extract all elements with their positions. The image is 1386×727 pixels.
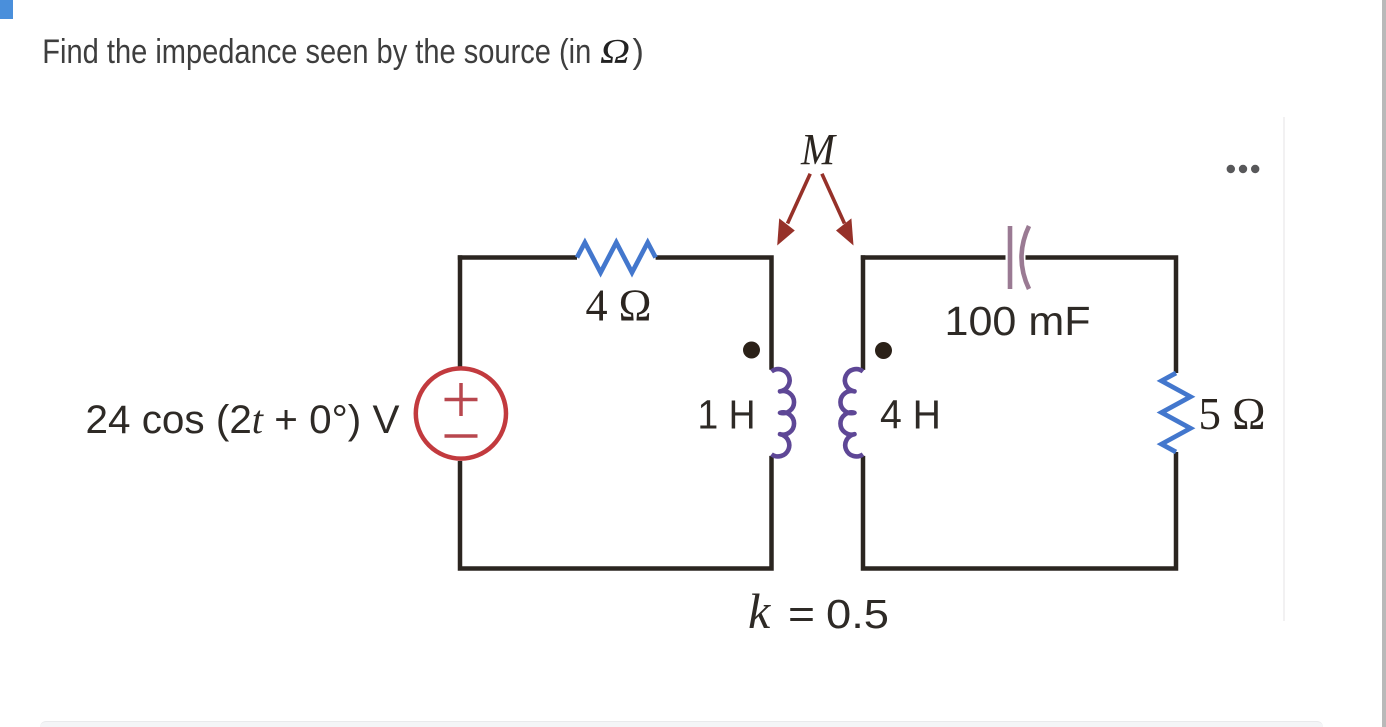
menu dot 3 — [1251, 165, 1259, 173]
menu dot 2 — [1239, 165, 1247, 173]
svg-text:5 Ω: 5 Ω — [1199, 388, 1266, 439]
svg-text:=: = — [788, 591, 815, 637]
figure right faint edge — [1283, 117, 1285, 621]
svg-text:1 H: 1 H — [698, 392, 756, 438]
arrow M left head — [777, 218, 795, 245]
right scrollbar line — [1382, 0, 1386, 727]
wire: left loop top right of resistor — [656, 258, 772, 370]
bottom gray band — [40, 721, 1323, 727]
capacitor C1 left plate — [1008, 226, 1013, 289]
capacitor C1 right curved plate — [1022, 226, 1030, 289]
dot marker right coil — [875, 342, 892, 359]
svg-text:M: M — [800, 125, 837, 174]
arrow M left shaft — [788, 174, 811, 224]
V1 minus sign — [445, 434, 478, 438]
blue corner square — [0, 0, 13, 19]
voltage source V1 circle — [416, 368, 506, 458]
wire: right loop top right segment and right side upper — [1026, 258, 1177, 374]
resistor R2 5ohm zigzag — [1162, 373, 1191, 452]
svg-text:0.5: 0.5 — [826, 591, 889, 637]
svg-text:4 Ω: 4 Ω — [586, 280, 652, 331]
svg-text:k: k — [748, 583, 771, 639]
wire: right loop left lower, bottom, right lower — [863, 452, 1176, 569]
inductor L2 4H coil — [840, 369, 863, 456]
svg-text:Find the impedance seen by the: Find the impedance seen by the source (i… — [42, 33, 591, 71]
svg-text:4 H: 4 H — [880, 392, 941, 438]
svg-text:24 cos (2t + 0°) V: 24 cos (2t + 0°) V — [86, 397, 400, 442]
svg-text:): ) — [633, 33, 644, 71]
inductor L1 1H coil — [772, 369, 795, 456]
menu dot 1 — [1227, 165, 1235, 173]
svg-text:Ω: Ω — [600, 32, 630, 71]
svg-text:100 mF: 100 mF — [945, 298, 1091, 344]
dot marker left coil — [743, 342, 760, 359]
wire: left loop left upper — [458, 255, 463, 367]
arrow M right head — [836, 218, 854, 245]
V1 plus sign — [445, 398, 478, 402]
wire: right loop left upper — [861, 255, 866, 370]
wire: left loop top with corner down to coil — [458, 255, 577, 260]
resistor R1 4ohm zigzag — [577, 243, 656, 273]
wire: right loop top left segment — [861, 255, 1006, 260]
wire: left loop left lower and bottom — [460, 456, 772, 569]
arrow M right shaft — [822, 174, 845, 224]
